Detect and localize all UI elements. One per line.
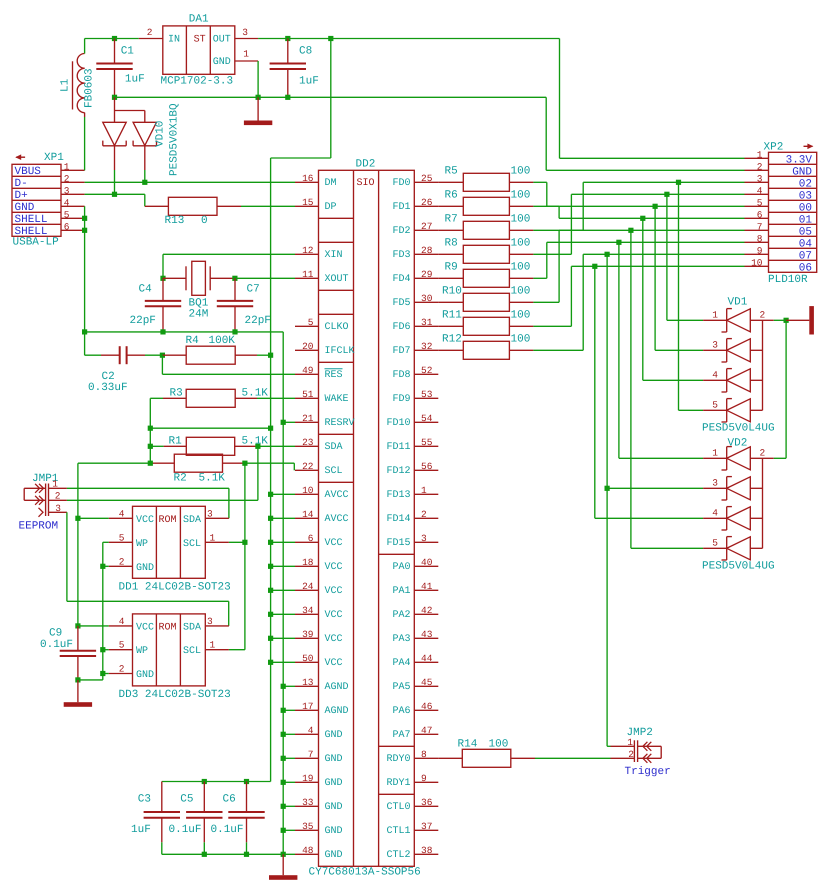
svg-text:1uF: 1uF xyxy=(299,76,319,88)
node junction C9 bottom xyxy=(75,677,80,682)
pin 31 of DD2 (FD6) xyxy=(392,317,438,333)
node junction VD10 on D- xyxy=(142,180,147,185)
svg-text:22pF: 22pF xyxy=(245,315,271,327)
wire D- net XP1 to DD2 DM xyxy=(85,181,295,183)
svg-text:RDY0: RDY0 xyxy=(386,754,410,765)
node junction on VCC rail xyxy=(268,612,273,617)
svg-text:100: 100 xyxy=(511,261,531,273)
svg-text:0: 0 xyxy=(201,215,208,227)
wire AGND/GND rung xyxy=(283,685,295,687)
wire FD7 net to XP2 row xyxy=(533,254,744,350)
svg-text:4: 4 xyxy=(712,507,718,518)
node junction C6 top xyxy=(244,779,249,784)
pin 46 of DD2 (PA6) xyxy=(392,701,438,717)
node junction XP1 pin6 xyxy=(82,228,87,233)
svg-text:27: 27 xyxy=(421,221,432,232)
svg-text:2: 2 xyxy=(119,664,125,675)
pin 2 of DD2 (FD14) xyxy=(386,509,438,525)
wire C2 to R4 xyxy=(145,354,162,356)
node junction DD1 GND xyxy=(100,564,105,569)
svg-text:40: 40 xyxy=(421,557,433,568)
node junction crystal right xyxy=(232,276,237,281)
node junction on ground drop xyxy=(281,828,286,833)
wire SDA to DD2 xyxy=(258,445,295,447)
svg-text:5: 5 xyxy=(712,537,718,548)
node junction DD1 SCL xyxy=(242,540,247,545)
pin 4 of DD1 (VCC) xyxy=(109,508,133,519)
ground symbol below DA1 xyxy=(244,97,272,125)
wire FD3 net to XP2 row xyxy=(533,194,744,254)
svg-text:0.1uF: 0.1uF xyxy=(211,824,244,836)
pin 39 of DD2 (VCC) xyxy=(295,629,343,645)
diode VD2 element pin 4 xyxy=(703,507,762,530)
wire DD3 GND stub xyxy=(103,673,109,675)
pin 27 of DD2 (FD2) xyxy=(392,221,438,237)
wire FD5 net to XP2 row xyxy=(533,230,744,302)
node junction on VCC rail xyxy=(268,588,273,593)
svg-text:XP1: XP1 xyxy=(44,152,64,164)
svg-text:13: 13 xyxy=(302,677,314,688)
svg-text:PESD5V0X1BQ: PESD5V0X1BQ xyxy=(169,103,181,176)
wire ESD branch to VD1 pin5 xyxy=(679,182,704,410)
pin 44 of DD2 (PA4) xyxy=(392,653,438,669)
pin 3 of JMP1 xyxy=(49,503,67,514)
pin 4 of XP2 xyxy=(745,185,769,196)
svg-text:C5: C5 xyxy=(180,794,193,806)
svg-text:2: 2 xyxy=(55,490,61,501)
svg-text:5: 5 xyxy=(757,197,763,208)
pin 38 of DD2 (CTL2) xyxy=(386,845,438,861)
svg-text:39: 39 xyxy=(302,629,314,640)
svg-text:RES: RES xyxy=(325,370,343,381)
svg-text:100: 100 xyxy=(511,189,531,201)
node junction 3.3V branch to VCC rail xyxy=(328,36,333,41)
node junction on XP2 row xyxy=(676,180,681,185)
arrow glyph of XP1 xyxy=(15,154,25,160)
svg-text:24: 24 xyxy=(302,581,314,592)
node junction RESRV on ground drop xyxy=(281,420,286,425)
node junction on VCC rail xyxy=(268,564,273,569)
wire AGND/GND rung xyxy=(283,781,295,783)
svg-text:26: 26 xyxy=(421,197,433,208)
wire AGND/GND rung xyxy=(283,829,295,831)
pin 1 of DD1 (SCL) xyxy=(205,532,229,543)
wire SCL jog to DD2 xyxy=(245,463,294,470)
svg-text:10: 10 xyxy=(751,257,763,268)
node junction C5 top xyxy=(202,779,207,784)
svg-text:24M: 24M xyxy=(189,309,209,321)
svg-text:37: 37 xyxy=(421,821,432,832)
node junction DA1 ground on bus xyxy=(256,95,261,100)
svg-text:2: 2 xyxy=(421,509,427,520)
svg-text:19: 19 xyxy=(302,773,314,784)
svg-text:D-: D- xyxy=(15,178,28,190)
node junction R2 left VCC tee xyxy=(148,461,153,466)
pin 8 of XP2 xyxy=(745,233,769,244)
svg-text:54: 54 xyxy=(421,413,433,424)
svg-text:R1: R1 xyxy=(169,436,183,448)
svg-text:31: 31 xyxy=(421,317,433,328)
svg-text:16: 16 xyxy=(302,173,314,184)
svg-text:IFCLK: IFCLK xyxy=(325,346,355,357)
svg-text:25: 25 xyxy=(421,173,433,184)
wire R13 to DD2 DP xyxy=(241,205,295,207)
svg-text:R5: R5 xyxy=(445,165,458,177)
node junction on ground drop xyxy=(281,780,286,785)
svg-text:DD3 24LC02B-SOT23: DD3 24LC02B-SOT23 xyxy=(119,689,231,701)
node junction on ground drop xyxy=(281,732,286,737)
svg-text:4: 4 xyxy=(757,185,763,196)
svg-text:30: 30 xyxy=(421,293,433,304)
node junction 07 net on XP2 row xyxy=(605,252,610,257)
pin 3 of DA1 (OUT) xyxy=(235,27,258,39)
pin 4 of XP1 xyxy=(61,197,85,208)
svg-text:CTL1: CTL1 xyxy=(386,826,410,837)
wire XOUT from crystal xyxy=(235,277,295,279)
pin 21 of DD2 (RESRV) xyxy=(295,413,355,429)
pin 4 of DD2 (GND) xyxy=(295,725,343,741)
svg-text:PA2: PA2 xyxy=(392,610,410,621)
pin 2 of VD1 xyxy=(760,309,774,320)
node junction on ground drop xyxy=(281,684,286,689)
pin 2 of DD1 (GND) xyxy=(109,556,133,567)
node junction on XP2 row xyxy=(640,216,645,221)
svg-text:XP2: XP2 xyxy=(764,142,784,154)
wire XP1 VBUS up to L1 xyxy=(84,117,86,170)
svg-text:SDA: SDA xyxy=(183,622,201,633)
svg-text:6: 6 xyxy=(308,533,314,544)
wire FD0 net to XP2 row xyxy=(533,182,744,206)
resistor R5 100 xyxy=(438,173,533,191)
wire JMP1 pin3 to DD3 SDA xyxy=(67,512,229,626)
node junction DD3 GND xyxy=(100,671,105,676)
resistor R12 100 xyxy=(438,341,533,359)
pin 10 of DD2 (AVCC) xyxy=(295,485,349,501)
svg-text:Trigger: Trigger xyxy=(625,766,671,778)
svg-text:AVCC: AVCC xyxy=(325,490,349,501)
pin 24 of DD2 (VCC) xyxy=(295,581,343,597)
svg-text:32: 32 xyxy=(421,341,433,352)
pin 2 of VD2 xyxy=(760,447,774,458)
node junction VD2 pin3 tap xyxy=(605,486,610,491)
wire DD1 VCC to rail xyxy=(78,517,109,519)
node junction C7 bottom xyxy=(232,329,237,334)
wire JMP1 pin2 to SDA net xyxy=(67,499,258,501)
pin 15 of DD2 (DP) xyxy=(295,197,337,213)
svg-text:FB0603: FB0603 xyxy=(84,68,96,108)
crystal BQ1 24M xyxy=(163,261,235,295)
wire R1 left to VCC tap xyxy=(150,445,163,447)
svg-text:C7: C7 xyxy=(247,284,260,296)
svg-text:PLD10R: PLD10R xyxy=(768,274,808,286)
svg-text:R8: R8 xyxy=(445,237,458,249)
svg-text:R4: R4 xyxy=(186,335,200,347)
svg-text:53: 53 xyxy=(421,389,433,400)
ground symbol below C9 xyxy=(64,680,92,707)
svg-text:R13: R13 xyxy=(165,215,185,227)
wire FD1 net to XP2 row xyxy=(533,206,744,218)
svg-text:4: 4 xyxy=(119,616,125,627)
diode VD2 element pin 3 xyxy=(703,477,762,500)
node junction on VCC rail xyxy=(268,516,273,521)
pin 19 of DD2 (GND) xyxy=(295,773,343,789)
svg-text:02: 02 xyxy=(799,178,812,190)
wire C9 bottom tie to EEPROM ground xyxy=(78,674,103,680)
svg-text:PA0: PA0 xyxy=(392,562,410,573)
svg-text:FD9: FD9 xyxy=(392,394,410,405)
wire GND to XP2 pin2 xyxy=(546,97,744,170)
wire VCC/AVCC supply rung xyxy=(271,493,295,495)
svg-text:1: 1 xyxy=(757,149,763,160)
wire common cathode bus of VD1 xyxy=(762,320,764,410)
svg-text:38: 38 xyxy=(421,845,433,856)
wire C3 bottom xyxy=(161,842,163,854)
pin 29 of DD2 (FD4) xyxy=(392,269,438,285)
voltage regulator DA1 MCP1702-3.3 xyxy=(163,26,235,74)
connector XP2 PLD10R xyxy=(769,152,817,274)
wire DD1 GND stub xyxy=(103,565,109,567)
pin 18 of DD2 (VCC) xyxy=(295,557,343,573)
node junction on ground drop xyxy=(281,708,286,713)
svg-text:XOUT: XOUT xyxy=(325,274,349,285)
svg-text:51: 51 xyxy=(302,389,314,400)
ESD diode array VD10 PESD5V0X1BQ xyxy=(103,97,181,176)
svg-text:07: 07 xyxy=(799,250,812,262)
svg-text:4: 4 xyxy=(712,369,718,380)
svg-text:1: 1 xyxy=(243,49,249,60)
wire ESD branch to VD2 pin3 and JMP2 pin1 xyxy=(607,254,703,746)
pin 1 of DD3 (SCL) xyxy=(205,640,229,651)
svg-text:47: 47 xyxy=(421,725,432,736)
node junction R4 on VCC rail xyxy=(268,353,273,358)
pin 34 of DD2 (VCC) xyxy=(295,605,343,621)
svg-text:CTL0: CTL0 xyxy=(386,802,410,813)
svg-text:C9: C9 xyxy=(49,628,62,640)
wire RESRV to ground rail xyxy=(283,421,295,423)
svg-text:55: 55 xyxy=(421,437,433,448)
svg-text:18: 18 xyxy=(302,557,314,568)
pin 41 of DD2 (PA1) xyxy=(392,581,438,597)
wire FD6 net to XP2 row xyxy=(533,266,744,326)
pin 33 of DD2 (GND) xyxy=(295,797,343,813)
node VBUS junction at C1 top xyxy=(112,36,117,41)
svg-text:FD3: FD3 xyxy=(392,250,410,261)
node junction DD1 VCC on rail xyxy=(75,516,80,521)
wire SDA branch down to JMP1 pin2 xyxy=(257,446,259,500)
pin 14 of DD2 (AVCC) xyxy=(295,509,349,525)
wire pin stub L1 bottom xyxy=(84,113,86,117)
svg-text:52: 52 xyxy=(421,365,433,376)
pin 1 of XP1 xyxy=(61,161,85,172)
svg-text:100: 100 xyxy=(489,739,509,751)
svg-text:3.3V: 3.3V xyxy=(786,154,813,166)
wire ESD branch to VD2 pin1 xyxy=(619,242,703,458)
svg-text:0.1uF: 0.1uF xyxy=(40,639,73,651)
svg-text:PA6: PA6 xyxy=(392,706,410,717)
node junction R2 right SCL xyxy=(242,461,247,466)
svg-text:2: 2 xyxy=(119,556,125,567)
pin 50 of DD2 (VCC) xyxy=(295,653,343,669)
svg-text:SDA: SDA xyxy=(183,515,201,526)
svg-text:FD12: FD12 xyxy=(386,466,410,477)
svg-text:17: 17 xyxy=(302,701,313,712)
svg-text:USBA-LP: USBA-LP xyxy=(13,236,60,248)
node junction on XP2 row xyxy=(616,240,621,245)
svg-text:WAKE: WAKE xyxy=(325,394,349,405)
wire 3.3V rail from DA1 OUT xyxy=(258,38,559,40)
svg-text:XIN: XIN xyxy=(325,250,343,261)
pin 1 of JMP1 xyxy=(49,479,67,490)
wire crystal ground line xyxy=(85,331,284,333)
pin 5 of XP2 xyxy=(745,197,769,208)
connector XP1 USBA-LP xyxy=(12,164,61,238)
svg-text:46: 46 xyxy=(421,701,433,712)
resistor R3 5.1K xyxy=(163,389,257,407)
pin 56 of DD2 (FD12) xyxy=(386,461,438,477)
svg-text:WP: WP xyxy=(136,646,148,657)
wire R14 to JMP2 pin2 xyxy=(535,757,611,759)
pin 28 of DD2 (FD3) xyxy=(392,245,438,261)
pin 23 of DD2 (SDA) xyxy=(295,437,343,453)
svg-text:AGND: AGND xyxy=(325,706,349,717)
svg-text:9: 9 xyxy=(421,773,427,784)
svg-text:GND: GND xyxy=(325,802,343,813)
svg-text:C1: C1 xyxy=(121,46,135,58)
node junction VCC tap right on rail xyxy=(268,426,273,431)
svg-text:ROM: ROM xyxy=(159,622,177,633)
svg-text:7: 7 xyxy=(308,749,314,760)
node junction on VCC rail xyxy=(268,540,273,545)
svg-text:20: 20 xyxy=(302,341,314,352)
svg-text:D+: D+ xyxy=(15,190,28,202)
node junction crystal left xyxy=(160,276,165,281)
pin 26 of DD2 (FD1) xyxy=(392,197,438,213)
svg-text:VCC: VCC xyxy=(325,586,343,597)
diode VD1 element pin 4 xyxy=(703,369,762,392)
svg-text:PA7: PA7 xyxy=(392,730,410,741)
pin 2 of XP1 xyxy=(61,173,85,184)
svg-text:3: 3 xyxy=(421,533,427,544)
node junction C4 bottom xyxy=(160,329,165,334)
node junction R1 right SDA xyxy=(255,444,260,449)
svg-text:3: 3 xyxy=(242,27,248,38)
node junction on ground drop xyxy=(281,804,286,809)
svg-text:CLKO: CLKO xyxy=(325,322,349,333)
svg-text:DP: DP xyxy=(325,202,337,213)
pin 1 of DD2 (FD13) xyxy=(386,485,438,501)
svg-text:41: 41 xyxy=(421,581,433,592)
wire C6 bottom xyxy=(246,842,248,854)
resistor R13 0 xyxy=(145,197,241,215)
svg-text:36: 36 xyxy=(421,797,433,808)
wire AGND/GND rung xyxy=(283,805,295,807)
svg-text:CTL2: CTL2 xyxy=(386,850,410,861)
svg-text:21: 21 xyxy=(302,413,314,424)
wire VCC tap rung xyxy=(150,427,270,429)
svg-text:VCC: VCC xyxy=(136,622,154,633)
svg-text:10: 10 xyxy=(302,485,314,496)
wire VCC/AVCC supply rung xyxy=(271,565,295,567)
node junction on XP2 row xyxy=(653,204,658,209)
svg-text:1: 1 xyxy=(64,161,70,172)
svg-text:VCC: VCC xyxy=(136,515,154,526)
pin 16 of DD2 (DM) xyxy=(295,173,337,189)
svg-text:0.33uF: 0.33uF xyxy=(88,382,128,394)
svg-text:FD0: FD0 xyxy=(392,178,410,189)
pin 25 of DD2 (FD0) xyxy=(392,173,438,189)
pin 2 of XP2 xyxy=(745,161,769,172)
pin 32 of DD2 (FD7) xyxy=(392,341,438,357)
node junction C8 top xyxy=(285,36,290,41)
node junction R1 left xyxy=(148,444,153,449)
node junction VD10 on D+ xyxy=(112,192,117,197)
EEPROM DD3 24LC02B-SOT23 xyxy=(133,614,206,686)
pin 17 of DD2 (AGND) xyxy=(295,701,349,717)
svg-text:GND: GND xyxy=(325,778,343,789)
svg-text:R10: R10 xyxy=(442,285,462,297)
wire AGND/GND rung xyxy=(283,757,295,759)
wire VCC/AVCC supply rung xyxy=(271,589,295,591)
pin 3 of DD1 (SDA) xyxy=(205,508,229,519)
svg-text:DD1 24LC02B-SOT23: DD1 24LC02B-SOT23 xyxy=(119,581,231,593)
svg-text:3: 3 xyxy=(55,503,61,514)
pin 22 of DD2 (SCL) xyxy=(295,461,343,477)
node junction XP1 pin5 xyxy=(82,216,87,221)
svg-text:R2: R2 xyxy=(174,472,187,484)
wire VD1 pin2 to ground bar xyxy=(774,319,786,321)
node junction VCC tap left xyxy=(148,426,153,431)
pin 53 of DD2 (FD9) xyxy=(392,389,438,405)
capacitor C8 1uF xyxy=(270,39,306,98)
wire R3 left to VCC tap xyxy=(150,398,163,463)
svg-text:35: 35 xyxy=(302,821,314,832)
resistor R2 5.1K xyxy=(151,454,245,472)
pin 3 of DD2 (FD15) xyxy=(386,533,438,549)
svg-text:EEPROM: EEPROM xyxy=(19,521,59,533)
svg-text:L1: L1 xyxy=(60,78,72,92)
svg-text:GND: GND xyxy=(136,563,154,574)
svg-text:SHELL: SHELL xyxy=(15,214,48,226)
wire VCC rail to decoupling caps xyxy=(162,781,271,783)
svg-text:FD4: FD4 xyxy=(392,274,410,285)
svg-text:PA1: PA1 xyxy=(392,586,410,597)
svg-text:2: 2 xyxy=(628,749,634,760)
svg-text:ROM: ROM xyxy=(159,515,177,526)
node junction on ground drop xyxy=(281,756,286,761)
pin 43 of DD2 (PA3) xyxy=(392,629,438,645)
svg-text:15: 15 xyxy=(302,197,314,208)
svg-text:C6: C6 xyxy=(223,794,236,806)
wire 3.3V branch down to VCC rail jog xyxy=(271,39,331,782)
svg-text:GND: GND xyxy=(15,202,35,214)
pin 8 of DD2 (RDY0) xyxy=(386,749,438,765)
pin 1 of DA1 (GND) xyxy=(235,49,258,62)
wire R4 to VCC rail xyxy=(257,354,271,356)
wire R3 to WAKE pin xyxy=(257,397,295,399)
svg-text:OUT: OUT xyxy=(213,35,231,46)
node junction C5 bottom xyxy=(202,852,207,857)
wire DD3 WP stub xyxy=(103,649,109,651)
svg-text:VBUS: VBUS xyxy=(15,166,42,178)
wire VCC/AVCC supply rung xyxy=(271,517,295,519)
wire FD2 net to XP2 row xyxy=(533,182,744,230)
svg-text:FD2: FD2 xyxy=(392,226,410,237)
wire ESD branch to VD1 pin3 xyxy=(655,206,703,350)
node junction on VCC rail xyxy=(268,636,273,641)
diode VD1 element pin 1 xyxy=(703,309,762,332)
diode VD2 element pin 5 xyxy=(703,537,762,560)
inductor L1 FB0603 xyxy=(60,54,96,113)
